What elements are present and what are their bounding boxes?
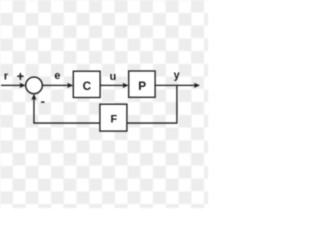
svg-text:P: P — [138, 79, 146, 93]
svg-text:e: e — [54, 70, 60, 82]
svg-text:u: u — [110, 71, 117, 83]
svg-text:y: y — [174, 70, 180, 82]
svg-text:C: C — [83, 79, 92, 93]
svg-text:F: F — [110, 114, 117, 126]
svg-text:r: r — [4, 71, 9, 83]
